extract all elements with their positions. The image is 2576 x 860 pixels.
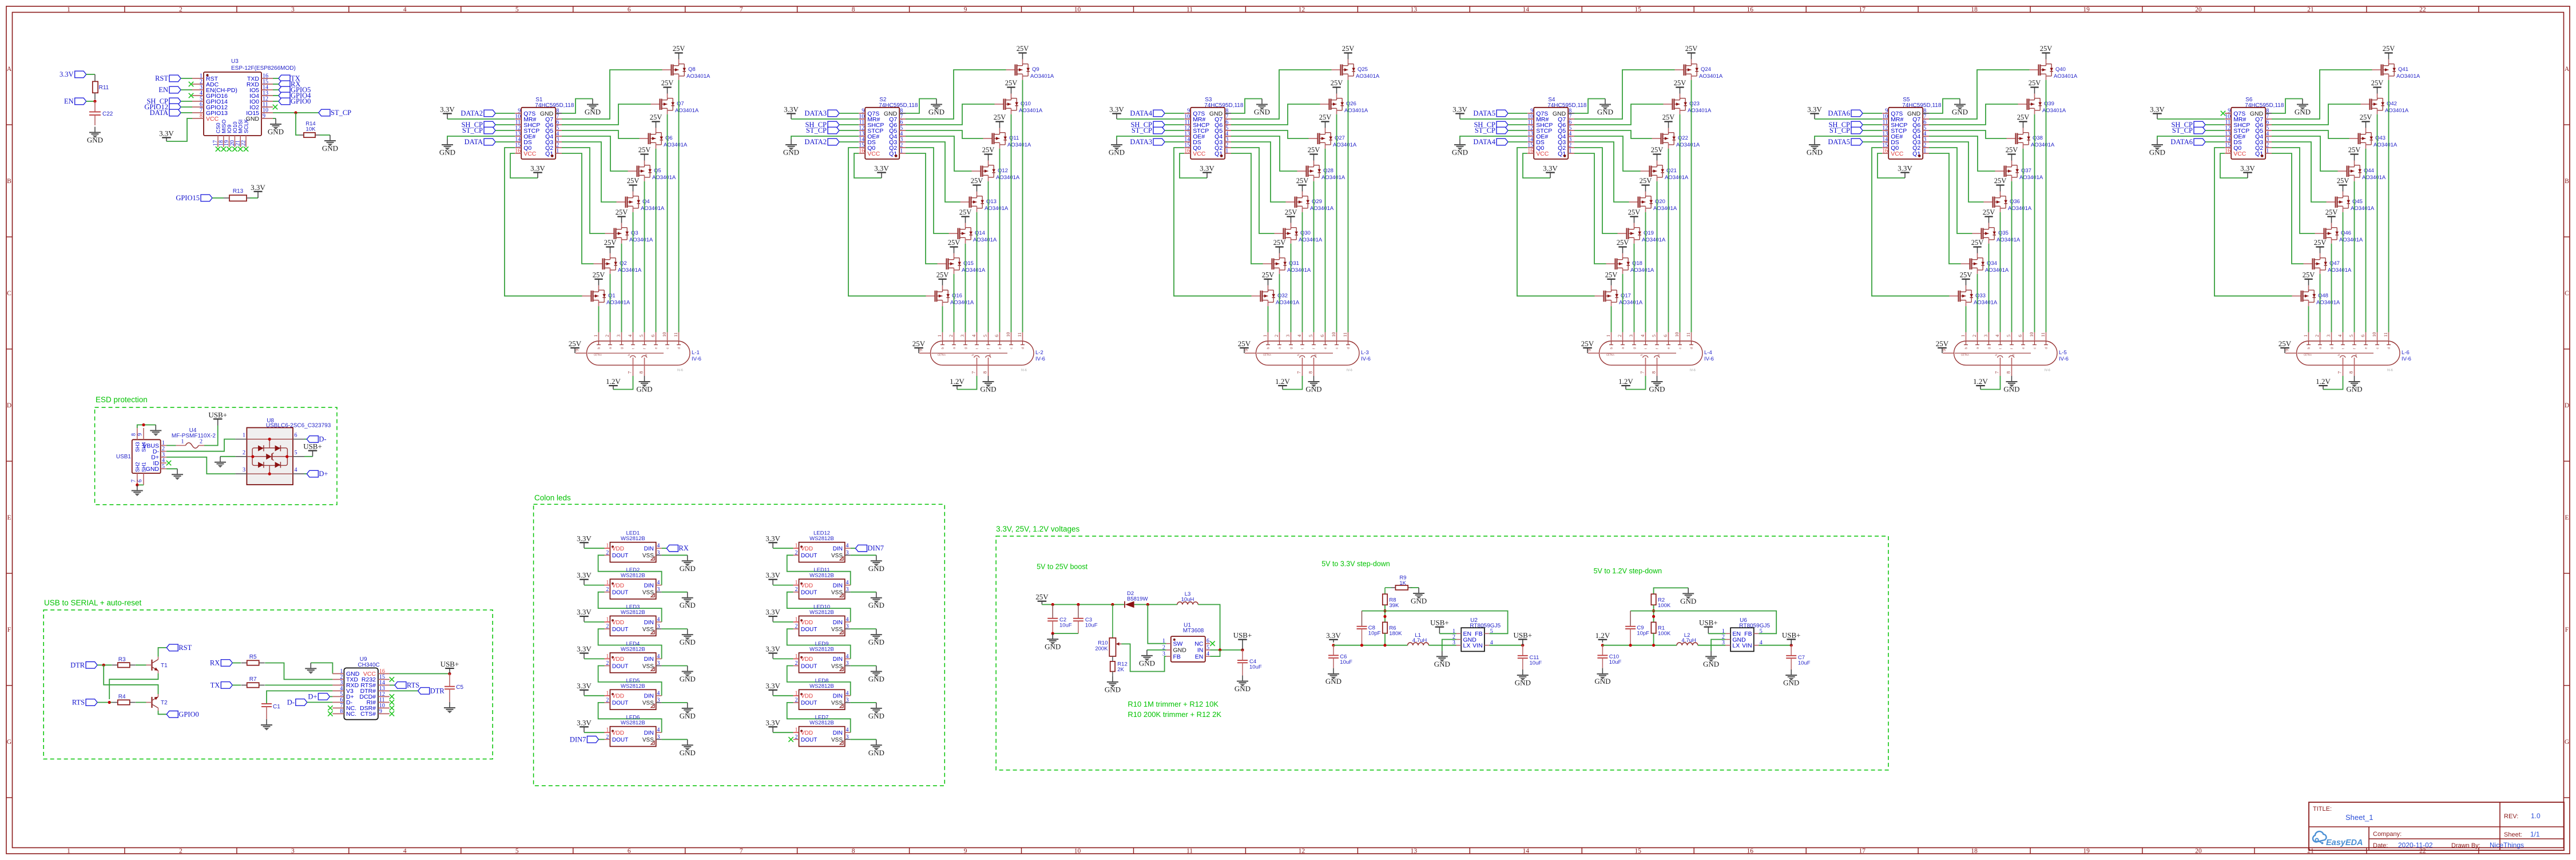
wire bbox=[136, 664, 146, 665]
power 3.3V bbox=[1109, 105, 1124, 120]
svg-text:13: 13 bbox=[1411, 848, 1418, 855]
svg-text:G: G bbox=[2565, 739, 2569, 746]
svg-text:IV-6: IV-6 bbox=[1704, 356, 1714, 362]
svg-text:3.3V: 3.3V bbox=[251, 183, 265, 192]
svg-text:IV-6: IV-6 bbox=[692, 356, 701, 362]
svg-text:SH4: SH4 bbox=[141, 442, 147, 452]
svg-text:R4: R4 bbox=[118, 694, 126, 700]
svg-text:REV:: REV: bbox=[2504, 813, 2518, 820]
svg-text:6: 6 bbox=[994, 335, 999, 337]
svg-text:25V: 25V bbox=[2325, 208, 2338, 216]
wire bbox=[273, 112, 319, 113]
wire bbox=[166, 118, 192, 141]
wire bbox=[232, 663, 241, 664]
transistor Q4 bbox=[617, 177, 665, 212]
svg-text:VSS: VSS bbox=[831, 627, 843, 633]
svg-text:VCC: VCC bbox=[2233, 150, 2246, 157]
svg-text:GND: GND bbox=[1109, 148, 1125, 157]
svg-text:GND: GND bbox=[1952, 108, 1968, 116]
power 25V bbox=[1936, 339, 1949, 353]
svg-text:16: 16 bbox=[1747, 848, 1753, 855]
svg-text:ST_CP: ST_CP bbox=[2172, 126, 2193, 134]
easyeda logo bbox=[2313, 831, 2363, 847]
svg-text:USB+: USB+ bbox=[1430, 619, 1449, 627]
svg-text:GND: GND bbox=[680, 564, 696, 573]
svg-text:R10 1M trimmer + R12 10K: R10 1M trimmer + R12 10K bbox=[1128, 700, 1218, 708]
svg-text:3: 3 bbox=[657, 550, 660, 556]
svg-text:3.3V: 3.3V bbox=[59, 70, 74, 78]
wire bbox=[273, 89, 279, 90]
svg-text:GND: GND bbox=[1594, 677, 1610, 685]
svg-text:10pF: 10pF bbox=[1637, 631, 1649, 637]
svg-text:3: 3 bbox=[243, 467, 245, 473]
svg-text:9: 9 bbox=[964, 848, 967, 855]
net flag DATA3 bbox=[804, 109, 839, 117]
wire bbox=[598, 703, 662, 732]
svg-text:1: 1 bbox=[67, 6, 70, 13]
svg-text:Q5: Q5 bbox=[654, 168, 661, 174]
wire bbox=[1121, 644, 1166, 671]
svg-text:4: 4 bbox=[657, 580, 660, 586]
power 3.3V bbox=[577, 681, 592, 696]
svg-text:3.3V, 25V, 1.2V voltages: 3.3V, 25V, 1.2V voltages bbox=[996, 525, 1079, 533]
svg-text:7: 7 bbox=[131, 479, 137, 482]
svg-text:1.2V: 1.2V bbox=[606, 377, 621, 386]
led LED1 bbox=[605, 530, 662, 562]
transistor Q12 bbox=[972, 146, 1020, 181]
shift register S6 bbox=[2225, 97, 2284, 159]
svg-text:e: e bbox=[999, 347, 1002, 349]
transistor Q37 bbox=[1995, 146, 2043, 181]
wire bbox=[988, 181, 989, 332]
wire bbox=[1291, 244, 1292, 332]
wire bbox=[273, 84, 279, 85]
wire bbox=[598, 592, 662, 622]
wire bbox=[1698, 645, 1726, 646]
wire bbox=[447, 136, 515, 139]
wire bbox=[495, 124, 515, 125]
wire bbox=[1411, 587, 1419, 588]
svg-text:c: c bbox=[666, 347, 670, 349]
svg-text:25V: 25V bbox=[1605, 271, 1618, 279]
capacitor C2 bbox=[1047, 605, 1072, 634]
svg-text:DIN: DIN bbox=[644, 693, 654, 700]
net flag SH_CP bbox=[1130, 121, 1165, 129]
net flag DATA2 bbox=[804, 138, 839, 146]
svg-text:10uF: 10uF bbox=[1340, 659, 1352, 665]
svg-text:1: 1 bbox=[1262, 335, 1268, 337]
wire bbox=[787, 555, 851, 585]
svg-text:DIN7: DIN7 bbox=[570, 735, 586, 743]
wire bbox=[265, 663, 332, 680]
svg-text:25V: 25V bbox=[971, 177, 983, 185]
resistor R13 bbox=[224, 188, 250, 201]
svg-text:e: e bbox=[655, 347, 658, 349]
wire bbox=[1231, 142, 1286, 202]
svg-text:25V: 25V bbox=[1017, 45, 1029, 53]
svg-text:GND: GND bbox=[680, 675, 696, 683]
capacitor C5 bbox=[444, 673, 464, 702]
no-connect X pin 9 bbox=[2221, 111, 2225, 116]
svg-text:3: 3 bbox=[291, 848, 295, 855]
svg-text:MF-PSMF110X-2: MF-PSMF110X-2 bbox=[172, 433, 216, 439]
svg-text:3: 3 bbox=[1162, 651, 1165, 657]
svg-text:WS2812B: WS2812B bbox=[809, 720, 834, 726]
wire bbox=[773, 548, 793, 549]
transistor Q27 bbox=[1309, 113, 1357, 149]
svg-text:25V: 25V bbox=[673, 45, 685, 53]
resistor R8 bbox=[1383, 594, 1399, 609]
svg-text:25V: 25V bbox=[2383, 45, 2395, 53]
svg-text:USB+: USB+ bbox=[1233, 631, 1252, 640]
transistor Q33 bbox=[1950, 271, 1998, 306]
svg-text:3: 3 bbox=[657, 697, 660, 703]
svg-text:EN: EN bbox=[1195, 653, 1204, 660]
svg-text:3.3V: 3.3V bbox=[765, 718, 780, 727]
svg-text:VSS: VSS bbox=[642, 553, 654, 559]
wire bbox=[2220, 153, 2248, 178]
wire bbox=[320, 134, 330, 136]
transistor Q28 bbox=[1297, 146, 1345, 181]
svg-text:GPIO0: GPIO0 bbox=[291, 97, 311, 105]
svg-text:8: 8 bbox=[200, 113, 203, 120]
svg-text:Q11: Q11 bbox=[1009, 135, 1019, 141]
wire bbox=[390, 690, 418, 691]
svg-text:3: 3 bbox=[1983, 335, 1988, 337]
svg-text:Date:: Date: bbox=[2373, 842, 2388, 849]
svg-text:b: b bbox=[942, 347, 945, 349]
svg-text:3: 3 bbox=[846, 660, 849, 667]
svg-text:g: g bbox=[964, 347, 968, 349]
svg-text:3.3V: 3.3V bbox=[784, 105, 799, 114]
svg-text:25V: 25V bbox=[1936, 339, 1949, 348]
svg-text:3.3V: 3.3V bbox=[577, 571, 592, 580]
svg-text:Colon leds: Colon leds bbox=[534, 494, 571, 502]
wire bbox=[662, 554, 688, 556]
power 3.3V bbox=[577, 718, 592, 732]
capacitor C9 bbox=[1625, 611, 1649, 645]
capacitor C10 bbox=[1597, 645, 1621, 668]
svg-text:17: 17 bbox=[1859, 6, 1865, 13]
svg-text:3: 3 bbox=[846, 550, 849, 556]
svg-text:GND: GND bbox=[1434, 660, 1450, 668]
net flag SH_CP bbox=[1828, 121, 1863, 129]
net flag SH_CP bbox=[1474, 121, 1508, 129]
svg-text:3: 3 bbox=[657, 586, 660, 593]
svg-text:4: 4 bbox=[657, 653, 660, 660]
svg-text:25V: 25V bbox=[982, 146, 995, 154]
wire bbox=[137, 485, 144, 486]
svg-text:DATA4: DATA4 bbox=[1473, 138, 1495, 146]
svg-text:25V: 25V bbox=[1331, 79, 1343, 87]
wire bbox=[1863, 141, 1882, 142]
wire bbox=[296, 113, 299, 135]
svg-text:IV-6: IV-6 bbox=[2387, 369, 2393, 372]
svg-text:180K: 180K bbox=[1389, 631, 1402, 637]
svg-text:3: 3 bbox=[1285, 335, 1291, 337]
wire bbox=[598, 666, 662, 696]
svg-text:Q1: Q1 bbox=[608, 292, 616, 299]
svg-text:c: c bbox=[1010, 347, 1014, 349]
wire bbox=[1929, 99, 1960, 114]
svg-text:25V: 25V bbox=[2348, 146, 2361, 154]
transistor Q7 bbox=[651, 79, 699, 114]
svg-text:VDD: VDD bbox=[612, 693, 624, 700]
svg-text:L-3: L-3 bbox=[1361, 350, 1369, 356]
transistor Q19 bbox=[1618, 208, 1666, 244]
svg-text:DIN: DIN bbox=[833, 730, 843, 736]
svg-text:g: g bbox=[1633, 347, 1637, 349]
svg-text:6: 6 bbox=[1319, 335, 1325, 337]
wire bbox=[2272, 153, 2304, 264]
no-connect X pin IO2 bbox=[273, 105, 277, 109]
svg-text:DIN: DIN bbox=[644, 656, 654, 663]
svg-text:1: 1 bbox=[67, 848, 70, 855]
svg-text:3.3V: 3.3V bbox=[1807, 105, 1822, 114]
svg-text:5: 5 bbox=[295, 450, 297, 456]
svg-text:L-6: L-6 bbox=[2402, 350, 2410, 356]
wire bbox=[1117, 118, 1184, 120]
wire bbox=[158, 711, 167, 714]
capacitor C7 bbox=[1786, 645, 1811, 669]
wire bbox=[1508, 124, 1527, 125]
wire bbox=[86, 74, 95, 75]
wire bbox=[1302, 212, 1303, 332]
svg-text:GND: GND bbox=[1411, 597, 1427, 605]
vfd tube L-5 bbox=[1941, 332, 2069, 377]
wire bbox=[1210, 649, 1243, 651]
wire bbox=[273, 118, 276, 119]
svg-text:25V: 25V bbox=[661, 79, 674, 87]
svg-text:6: 6 bbox=[650, 335, 656, 337]
svg-text:EN: EN bbox=[64, 97, 74, 105]
power 25V bbox=[1238, 339, 1251, 353]
wire bbox=[1147, 649, 1166, 651]
svg-text:18: 18 bbox=[1971, 6, 1978, 13]
svg-text:DATA3: DATA3 bbox=[1130, 138, 1152, 146]
wire bbox=[2272, 70, 2372, 119]
svg-text:IV-6: IV-6 bbox=[1347, 369, 1352, 372]
svg-text:3.3V: 3.3V bbox=[765, 534, 780, 542]
wire bbox=[1980, 376, 2001, 390]
junction bbox=[108, 701, 111, 704]
wire bbox=[1439, 633, 1456, 634]
svg-text:C: C bbox=[2565, 290, 2569, 297]
wire bbox=[906, 153, 938, 264]
svg-text:WS2812B: WS2812B bbox=[621, 646, 645, 652]
svg-text:D+: D+ bbox=[308, 692, 317, 700]
svg-text:6: 6 bbox=[1206, 638, 1209, 644]
wire bbox=[1872, 148, 1950, 296]
net flag ST_CP bbox=[1829, 126, 1863, 134]
svg-text:4: 4 bbox=[295, 467, 297, 473]
svg-text:7: 7 bbox=[740, 848, 743, 855]
svg-text:3: 3 bbox=[1452, 640, 1455, 646]
esp module U3 bbox=[192, 58, 296, 152]
svg-text:25V: 25V bbox=[948, 239, 960, 247]
svg-text:16: 16 bbox=[859, 148, 864, 154]
shift register S1 bbox=[515, 97, 574, 159]
svg-text:3.3V: 3.3V bbox=[1898, 164, 1912, 173]
svg-text:CETKA: CETKA bbox=[1961, 354, 1969, 356]
svg-text:FB: FB bbox=[1173, 653, 1181, 660]
ground bbox=[644, 375, 645, 377]
svg-text:IV-6: IV-6 bbox=[2402, 356, 2411, 362]
wire bbox=[1966, 306, 1967, 332]
svg-text:VIN: VIN bbox=[1742, 643, 1752, 649]
svg-text:25V: 25V bbox=[2029, 79, 2041, 87]
net flag DIN7 bbox=[570, 735, 598, 743]
svg-text:21: 21 bbox=[2307, 848, 2314, 855]
svg-text:3.3V: 3.3V bbox=[2150, 105, 2165, 114]
svg-text:11: 11 bbox=[1342, 332, 1348, 337]
svg-text:8: 8 bbox=[1651, 371, 1657, 374]
svg-text:9: 9 bbox=[379, 708, 382, 715]
transistor T2 bbox=[146, 694, 168, 711]
svg-text:1/1: 1/1 bbox=[2530, 830, 2540, 838]
wire bbox=[1336, 114, 1337, 332]
svg-text:SH3: SH3 bbox=[134, 442, 140, 452]
svg-text:19: 19 bbox=[2083, 6, 2090, 13]
svg-text:100K: 100K bbox=[1658, 631, 1671, 637]
svg-text:Q8: Q8 bbox=[688, 66, 696, 73]
wire bbox=[1428, 645, 1456, 646]
wire bbox=[954, 274, 955, 332]
svg-text:7: 7 bbox=[1296, 371, 1302, 374]
svg-text:g: g bbox=[1988, 347, 1991, 349]
transistor Q42 bbox=[2361, 79, 2409, 114]
svg-text:2: 2 bbox=[606, 697, 609, 703]
ground bbox=[1105, 676, 1121, 694]
svg-text:25V: 25V bbox=[1319, 113, 1332, 121]
svg-text:2: 2 bbox=[795, 660, 798, 667]
svg-text:DOUT: DOUT bbox=[801, 663, 817, 669]
svg-text:2: 2 bbox=[795, 624, 798, 630]
svg-text:200K: 200K bbox=[1095, 646, 1108, 652]
svg-text:DOUT: DOUT bbox=[612, 663, 628, 669]
svg-text:4: 4 bbox=[1206, 651, 1209, 657]
transistor Q32 bbox=[1252, 271, 1300, 306]
svg-text:25V: 25V bbox=[1628, 208, 1641, 216]
wire bbox=[1626, 376, 1646, 390]
svg-text:WS2812B: WS2812B bbox=[621, 573, 645, 579]
svg-text:ST_CP: ST_CP bbox=[462, 126, 483, 134]
transistor Q3 bbox=[605, 208, 653, 244]
svg-text:6: 6 bbox=[2360, 335, 2365, 337]
svg-text:12: 12 bbox=[1299, 6, 1305, 13]
wire bbox=[1574, 130, 1652, 138]
svg-text:RX: RX bbox=[210, 659, 220, 667]
svg-text:5: 5 bbox=[515, 6, 519, 13]
wire bbox=[1508, 130, 1527, 131]
wire bbox=[2214, 148, 2292, 296]
svg-text:16: 16 bbox=[1882, 148, 1888, 154]
wire bbox=[562, 70, 662, 119]
wire bbox=[1384, 633, 1386, 645]
svg-text:e: e bbox=[1324, 347, 1328, 349]
svg-text:11: 11 bbox=[2383, 332, 2388, 337]
wire bbox=[851, 665, 876, 667]
transistor Q17 bbox=[1595, 271, 1643, 306]
wire bbox=[662, 665, 688, 667]
wire bbox=[1460, 118, 1527, 120]
wire bbox=[1165, 124, 1184, 125]
shift register S4 bbox=[1527, 97, 1587, 159]
svg-text:25V: 25V bbox=[2371, 79, 2384, 87]
svg-text:25V: 25V bbox=[1005, 79, 1018, 87]
svg-text:DIN: DIN bbox=[833, 620, 843, 626]
svg-text:VSS: VSS bbox=[831, 553, 843, 559]
svg-text:2: 2 bbox=[1971, 335, 1977, 337]
svg-text:USB+: USB+ bbox=[1782, 631, 1801, 639]
net flag DATA bbox=[150, 109, 181, 117]
wire bbox=[1878, 153, 1905, 178]
wire bbox=[304, 473, 307, 474]
svg-text:1: 1 bbox=[606, 727, 609, 734]
capacitor C8 bbox=[1357, 611, 1381, 645]
led LED12 bbox=[793, 530, 851, 562]
svg-text:25V: 25V bbox=[1651, 146, 1664, 154]
transistor Q48 bbox=[2292, 271, 2340, 306]
net flag RX bbox=[210, 659, 232, 667]
wire bbox=[562, 136, 628, 171]
wire bbox=[1622, 274, 1624, 332]
svg-text:VSS: VSS bbox=[642, 663, 654, 669]
svg-text:VIN: VIN bbox=[1472, 643, 1483, 649]
svg-text:3.3V: 3.3V bbox=[159, 129, 174, 138]
ground bbox=[1515, 669, 1531, 687]
svg-text:10uF: 10uF bbox=[1609, 659, 1622, 665]
svg-text:10uF: 10uF bbox=[1085, 623, 1098, 629]
wire bbox=[1279, 274, 1280, 332]
net flag DATA6 bbox=[1828, 109, 1863, 117]
svg-text:VCC: VCC bbox=[523, 150, 537, 157]
svg-text:AO3401A: AO3401A bbox=[2396, 73, 2420, 80]
transistor Q16 bbox=[926, 271, 974, 306]
wire bbox=[97, 664, 112, 665]
svg-text:10: 10 bbox=[1074, 6, 1081, 13]
svg-text:VCC: VCC bbox=[206, 116, 219, 122]
svg-text:NC.: NC. bbox=[346, 711, 356, 718]
svg-text:VSS: VSS bbox=[642, 737, 654, 743]
wire bbox=[667, 114, 668, 332]
svg-text:C1: C1 bbox=[273, 704, 280, 710]
svg-text:DATA6: DATA6 bbox=[1828, 109, 1850, 117]
svg-text:NC: NC bbox=[1194, 641, 1204, 648]
svg-text:25V: 25V bbox=[627, 177, 640, 185]
power 25V bbox=[569, 339, 582, 353]
svg-text:9: 9 bbox=[137, 433, 144, 436]
wire bbox=[2023, 149, 2024, 332]
svg-text:Q7: Q7 bbox=[677, 101, 684, 107]
power 3.3V bbox=[765, 608, 780, 622]
svg-text:11: 11 bbox=[673, 332, 678, 337]
svg-text:GND: GND bbox=[439, 148, 455, 157]
svg-text:1: 1 bbox=[2303, 335, 2308, 337]
svg-text:5: 5 bbox=[638, 335, 644, 337]
svg-text:WS2812B: WS2812B bbox=[809, 536, 834, 542]
svg-text:25V: 25V bbox=[593, 271, 605, 279]
svg-text:DIN: DIN bbox=[833, 656, 843, 663]
svg-text:WS2812B: WS2812B bbox=[809, 646, 834, 652]
svg-text:2: 2 bbox=[606, 660, 609, 667]
wire bbox=[906, 148, 949, 233]
svg-text:GND: GND bbox=[1325, 677, 1341, 685]
svg-text:DOUT: DOUT bbox=[612, 590, 628, 596]
wire bbox=[1022, 80, 1023, 332]
svg-text:2: 2 bbox=[606, 624, 609, 630]
wire bbox=[791, 118, 859, 120]
